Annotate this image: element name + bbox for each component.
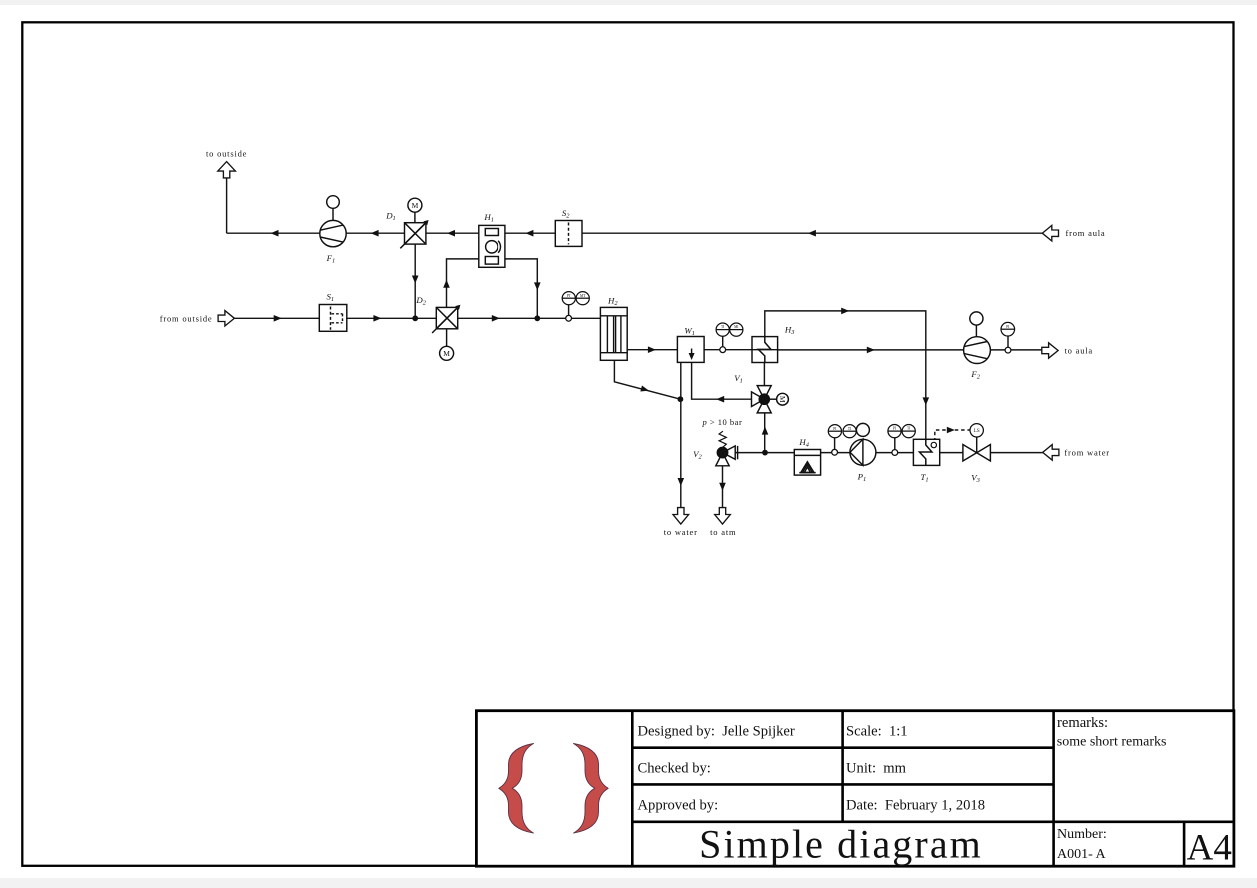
arrow right S1 to junction bbox=[373, 315, 381, 322]
wire V1 top to H3 bottom bbox=[763, 363, 765, 391]
instrument PI after H4 bbox=[828, 425, 841, 438]
wire W1 left drain to water bbox=[680, 362, 682, 507]
component labels bbox=[326, 208, 981, 484]
logo left brace bbox=[499, 744, 534, 834]
title block texts bbox=[638, 715, 1109, 814]
svg-text:A001- A: A001- A bbox=[1057, 847, 1107, 862]
arrow down D1 to junction bbox=[412, 276, 419, 284]
svg-text:A4: A4 bbox=[1187, 827, 1232, 868]
svg-text:Approved by:: Approved by: bbox=[638, 798, 719, 814]
outline arrow to atm bbox=[715, 508, 731, 524]
arrow right D2 to H2 bbox=[492, 315, 500, 322]
svg-text:Date: February 1, 2018: Date: February 1, 2018 bbox=[846, 798, 985, 814]
svg-text:Number:: Number: bbox=[1057, 827, 1107, 842]
svg-text:Simple diagram: Simple diagram bbox=[699, 822, 983, 867]
junction node water bbox=[762, 450, 768, 456]
svg-text:M: M bbox=[412, 201, 419, 210]
instrument MI after W1 bbox=[730, 323, 743, 336]
bottom gray band bbox=[0, 878, 1257, 888]
boiler H4 bbox=[794, 450, 820, 476]
wire water main line bbox=[723, 452, 1043, 454]
valve V3 bbox=[963, 445, 991, 462]
sensor node after F2 bbox=[1005, 347, 1011, 353]
instrument tiny texts bbox=[567, 294, 1010, 434]
arrow down to water bbox=[678, 478, 685, 486]
svg-text:Unit: mm: Unit: mm bbox=[846, 760, 907, 776]
instrument TI after H4 bbox=[843, 425, 856, 438]
wire H2 to W1 bbox=[627, 349, 677, 351]
wire H3 to F2 to aula bbox=[778, 349, 1042, 351]
instrument MT at H2 inlet bbox=[576, 292, 589, 305]
svg-text:p > 10 bar: p > 10 bar bbox=[702, 417, 743, 427]
arrow down loop to T1 bbox=[923, 397, 930, 405]
flow texts bbox=[160, 149, 1110, 537]
svg-text:MT: MT bbox=[580, 294, 586, 298]
svg-text:from aula: from aula bbox=[1066, 228, 1106, 238]
safety valve V2 bbox=[716, 431, 738, 466]
pump P1 bbox=[850, 423, 876, 465]
damper D1 bbox=[400, 198, 428, 248]
svg-text:remarks:: remarks: bbox=[1057, 715, 1108, 731]
wire sensor stem after F2 bbox=[1007, 336, 1009, 350]
outline arrow to aula bbox=[1042, 343, 1058, 358]
wire W1 to H3 bbox=[704, 349, 778, 351]
arrow right from-outside to S1 bbox=[274, 315, 282, 322]
wire dashed control line T1 to LS bbox=[935, 430, 970, 442]
arrow left on top line F1-D1 bbox=[371, 230, 379, 237]
instrument LS above V3 bbox=[970, 424, 983, 437]
arrow on H2 drain diagonal bbox=[640, 386, 649, 392]
arrow right on loop top bbox=[841, 308, 849, 315]
arrow left on top line before F1 bbox=[271, 230, 279, 237]
arrow left on top line S2-aula bbox=[808, 230, 816, 237]
outline arrow to water bbox=[673, 508, 689, 524]
svg-text:from water: from water bbox=[1064, 448, 1110, 458]
wire W1 right port to V1 bbox=[692, 362, 752, 399]
heat wheel H1 bbox=[479, 225, 505, 267]
arrow left V1 to W1 bbox=[716, 396, 724, 403]
wire sensor stem after W1 bbox=[722, 336, 724, 350]
instrument TI after W1 bbox=[716, 323, 729, 336]
wire top duct line bbox=[227, 232, 1043, 234]
wire to-outside riser bbox=[226, 178, 228, 233]
svg-text:Designed by: Jelle Spijker: Designed by: Jelle Spijker bbox=[638, 723, 795, 739]
wire lower duct line bbox=[234, 317, 600, 319]
arrow up D2 to H1 bbox=[443, 280, 450, 288]
wire V1 bottom to water junction bbox=[764, 408, 766, 453]
heating coil H2 bbox=[600, 307, 627, 360]
wire V2 drain to atm bbox=[722, 459, 724, 508]
svg-text:M: M bbox=[443, 349, 450, 358]
svg-text:M: M bbox=[778, 396, 787, 403]
arrow up junction to V1 bbox=[762, 427, 769, 435]
svg-text:to water: to water bbox=[664, 527, 698, 537]
fan F1 bbox=[320, 196, 346, 247]
wire H3 top loop to T1 bbox=[765, 311, 926, 439]
title block horizontals bbox=[632, 746, 1053, 749]
svg-text:LS: LS bbox=[974, 429, 980, 434]
svg-text:Scale: 1:1: Scale: 1:1 bbox=[846, 723, 908, 739]
wire sensor stem after D2 bbox=[568, 305, 570, 319]
instrument PI before T1 bbox=[888, 425, 901, 438]
svg-text:Checked by:: Checked by: bbox=[638, 760, 711, 776]
top gray band bbox=[0, 0, 1257, 5]
outline arrow from outside bbox=[218, 311, 234, 326]
instrument PT at H2 inlet bbox=[562, 292, 575, 305]
svg-text:to aula: to aula bbox=[1065, 346, 1094, 356]
motor letters bbox=[412, 201, 787, 403]
logo right brace bbox=[574, 744, 609, 834]
outline arrow to outside bbox=[218, 162, 236, 178]
three-way valve V1 bbox=[752, 386, 789, 413]
svg-text:to atm: to atm bbox=[710, 527, 736, 537]
arrow left on top line D1-H1 bbox=[447, 230, 455, 237]
svg-text:to outside: to outside bbox=[206, 149, 247, 159]
wire D2 up to H1 left port bbox=[447, 259, 479, 318]
instrument PI after F2 bbox=[1001, 322, 1015, 336]
heat exchanger H3 bbox=[752, 337, 778, 363]
sensor node after D2 bbox=[566, 315, 572, 321]
instrument TI before T1 bbox=[902, 425, 915, 438]
steam trap T1 bbox=[913, 439, 939, 465]
sensor node after W1 bbox=[720, 347, 726, 353]
fan F2 bbox=[964, 312, 991, 364]
sensor node before T1 bbox=[892, 450, 898, 456]
damper D2 bbox=[432, 305, 460, 361]
arrow left on top line H1-S2 bbox=[525, 230, 533, 237]
arrow right H2 to W1 bbox=[648, 346, 656, 353]
title block frame bbox=[476, 711, 1234, 867]
wire H1 right port down to junction bbox=[505, 259, 537, 318]
junction node D2 bbox=[412, 315, 418, 321]
svg-text:MI: MI bbox=[734, 325, 739, 329]
junction node below H1 bbox=[534, 315, 540, 321]
junction node drain bbox=[678, 396, 684, 402]
title block verticals bbox=[631, 711, 634, 867]
arrow right on dashed control line bbox=[947, 427, 955, 434]
humidifier W1 bbox=[677, 337, 704, 363]
arrow right H3 to F2 bbox=[867, 347, 875, 354]
svg-text:some short remarks: some short remarks bbox=[1057, 734, 1167, 749]
wire D1 to D2 junction bbox=[414, 233, 416, 318]
sensor node after H4 bbox=[832, 449, 838, 455]
filter S2 bbox=[555, 221, 582, 247]
filter S1 bbox=[319, 305, 347, 332]
arrow down V2 to atm bbox=[719, 483, 726, 491]
svg-text:from outside: from outside bbox=[160, 313, 213, 323]
wire LS stem to V3 bbox=[976, 437, 978, 453]
arrow down H1 to junction bbox=[534, 282, 541, 290]
wire H2 drain diagonal bbox=[614, 360, 680, 399]
outline arrow from aula bbox=[1042, 225, 1058, 241]
outline arrow from water bbox=[1043, 445, 1059, 461]
instruments bbox=[562, 292, 1014, 456]
wire sensor stem before T1 bbox=[894, 438, 896, 453]
wire sensor stem after H4 bbox=[834, 438, 836, 453]
